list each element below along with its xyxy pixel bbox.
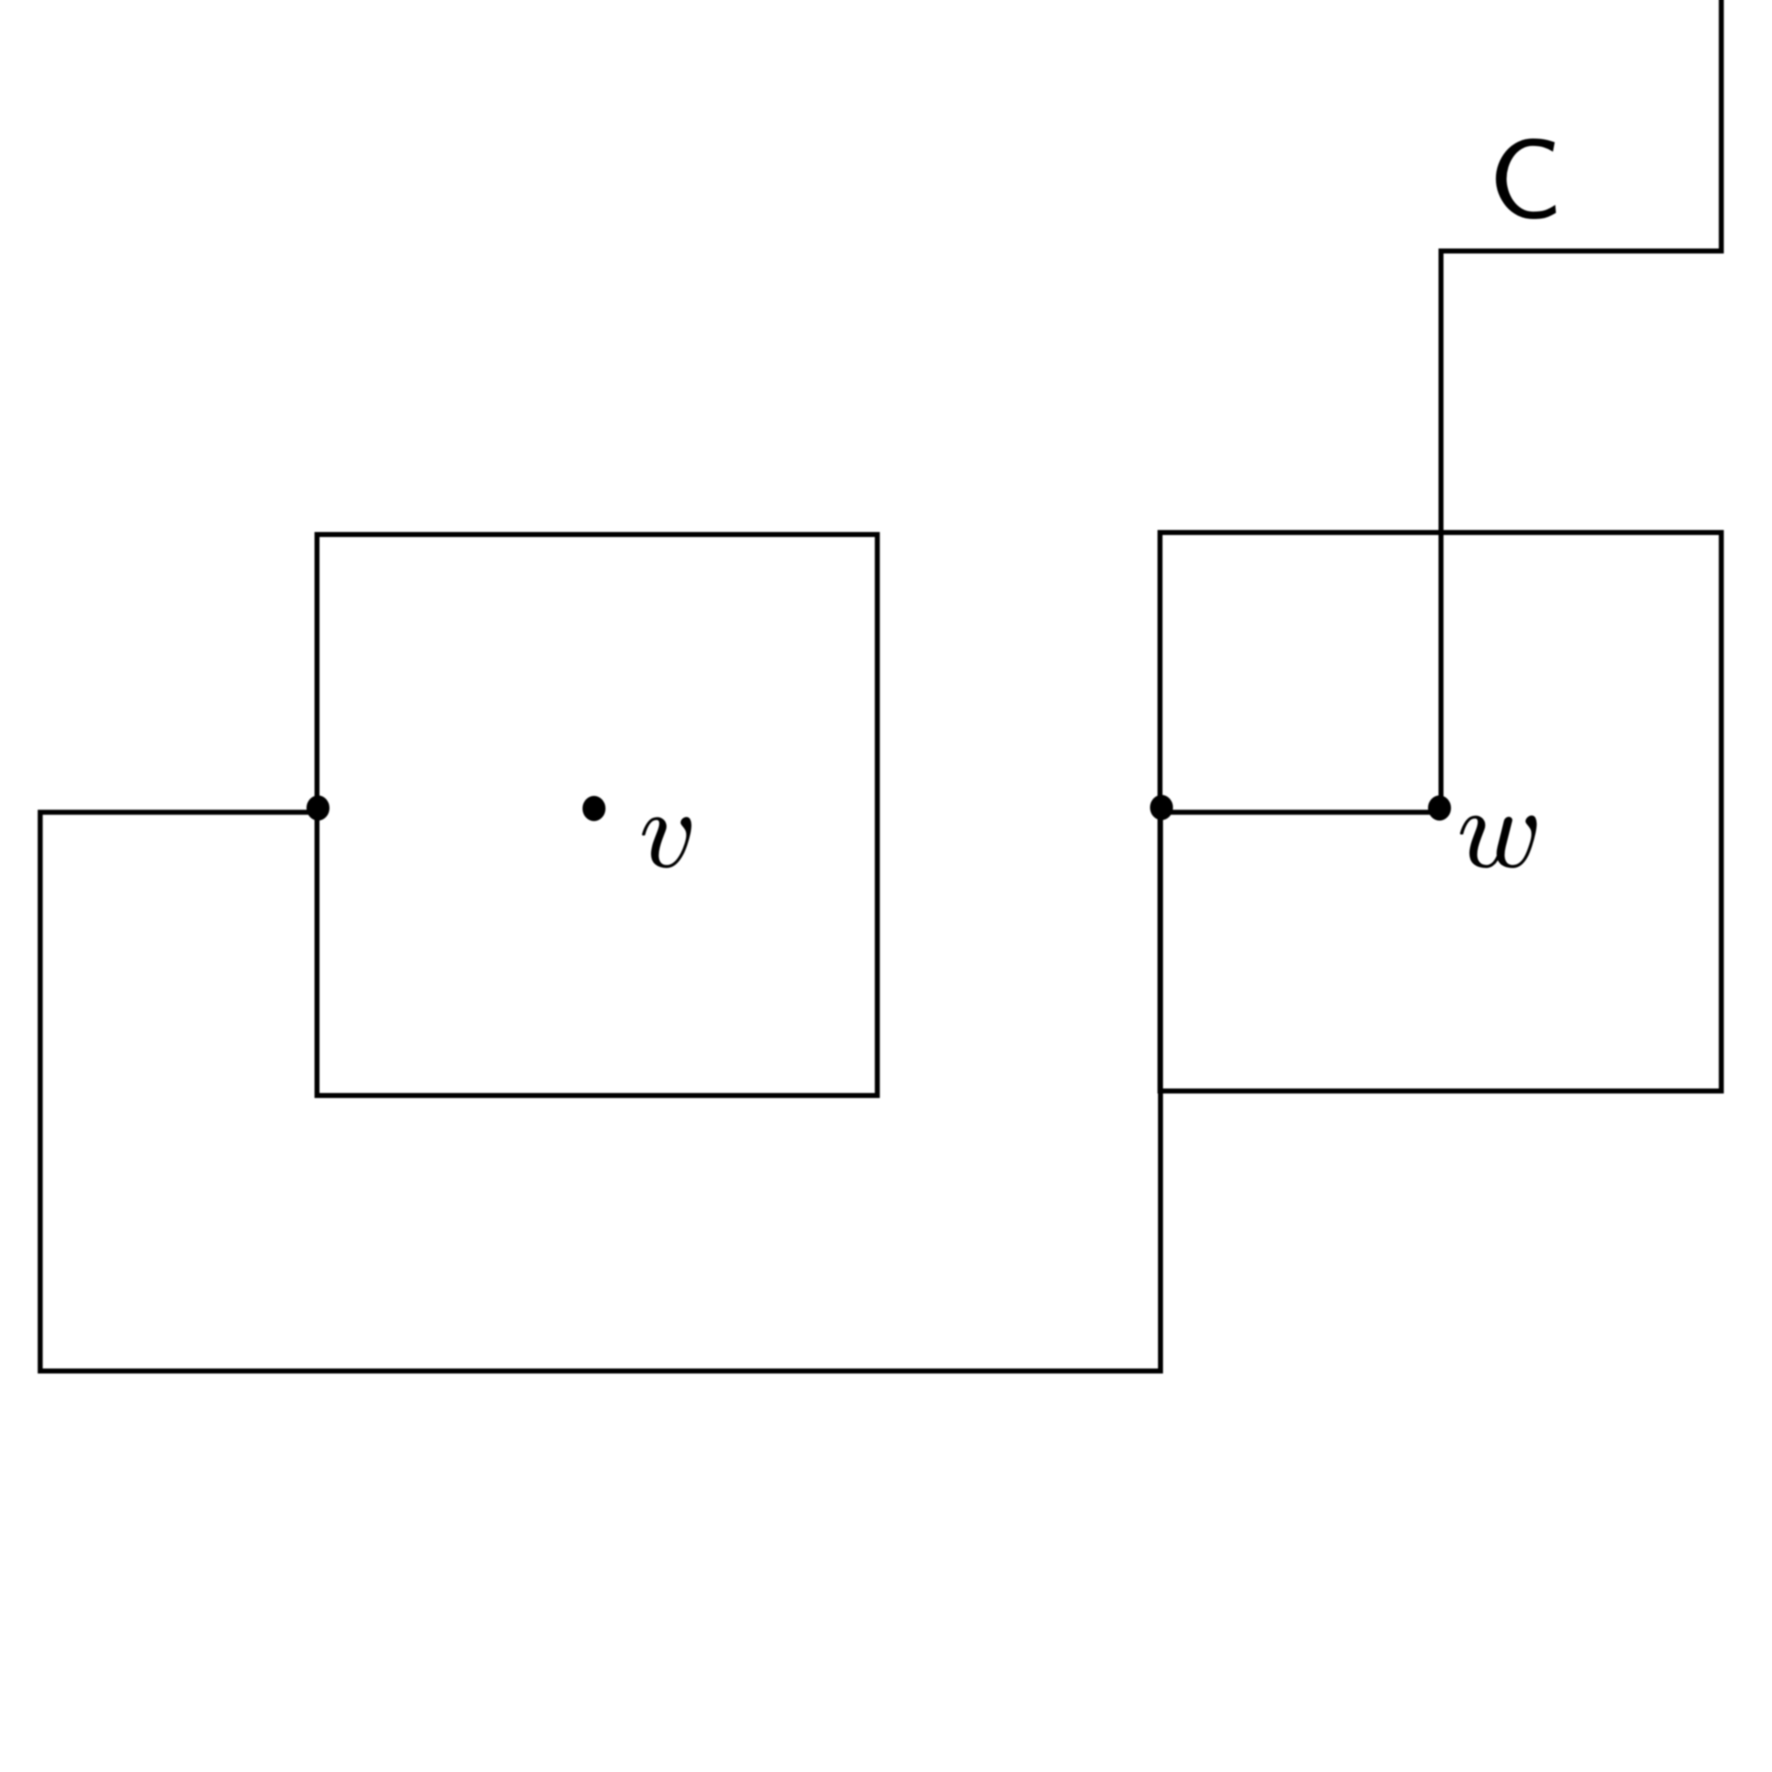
square cell of v (left square) bbox=[317, 535, 877, 1096]
label v bbox=[642, 817, 691, 868]
curve C (rectilinear path) bbox=[40, 0, 1721, 1371]
node v (center dot of left square) bbox=[583, 796, 606, 821]
node: dot on right square boundary bbox=[1150, 795, 1173, 820]
node w (dot in right square) bbox=[1428, 795, 1451, 820]
label w bbox=[1460, 815, 1537, 868]
square cell of w (right square) bbox=[1160, 533, 1721, 1092]
node: dot on left square boundary bbox=[307, 795, 330, 820]
label C bbox=[1496, 139, 1556, 219]
